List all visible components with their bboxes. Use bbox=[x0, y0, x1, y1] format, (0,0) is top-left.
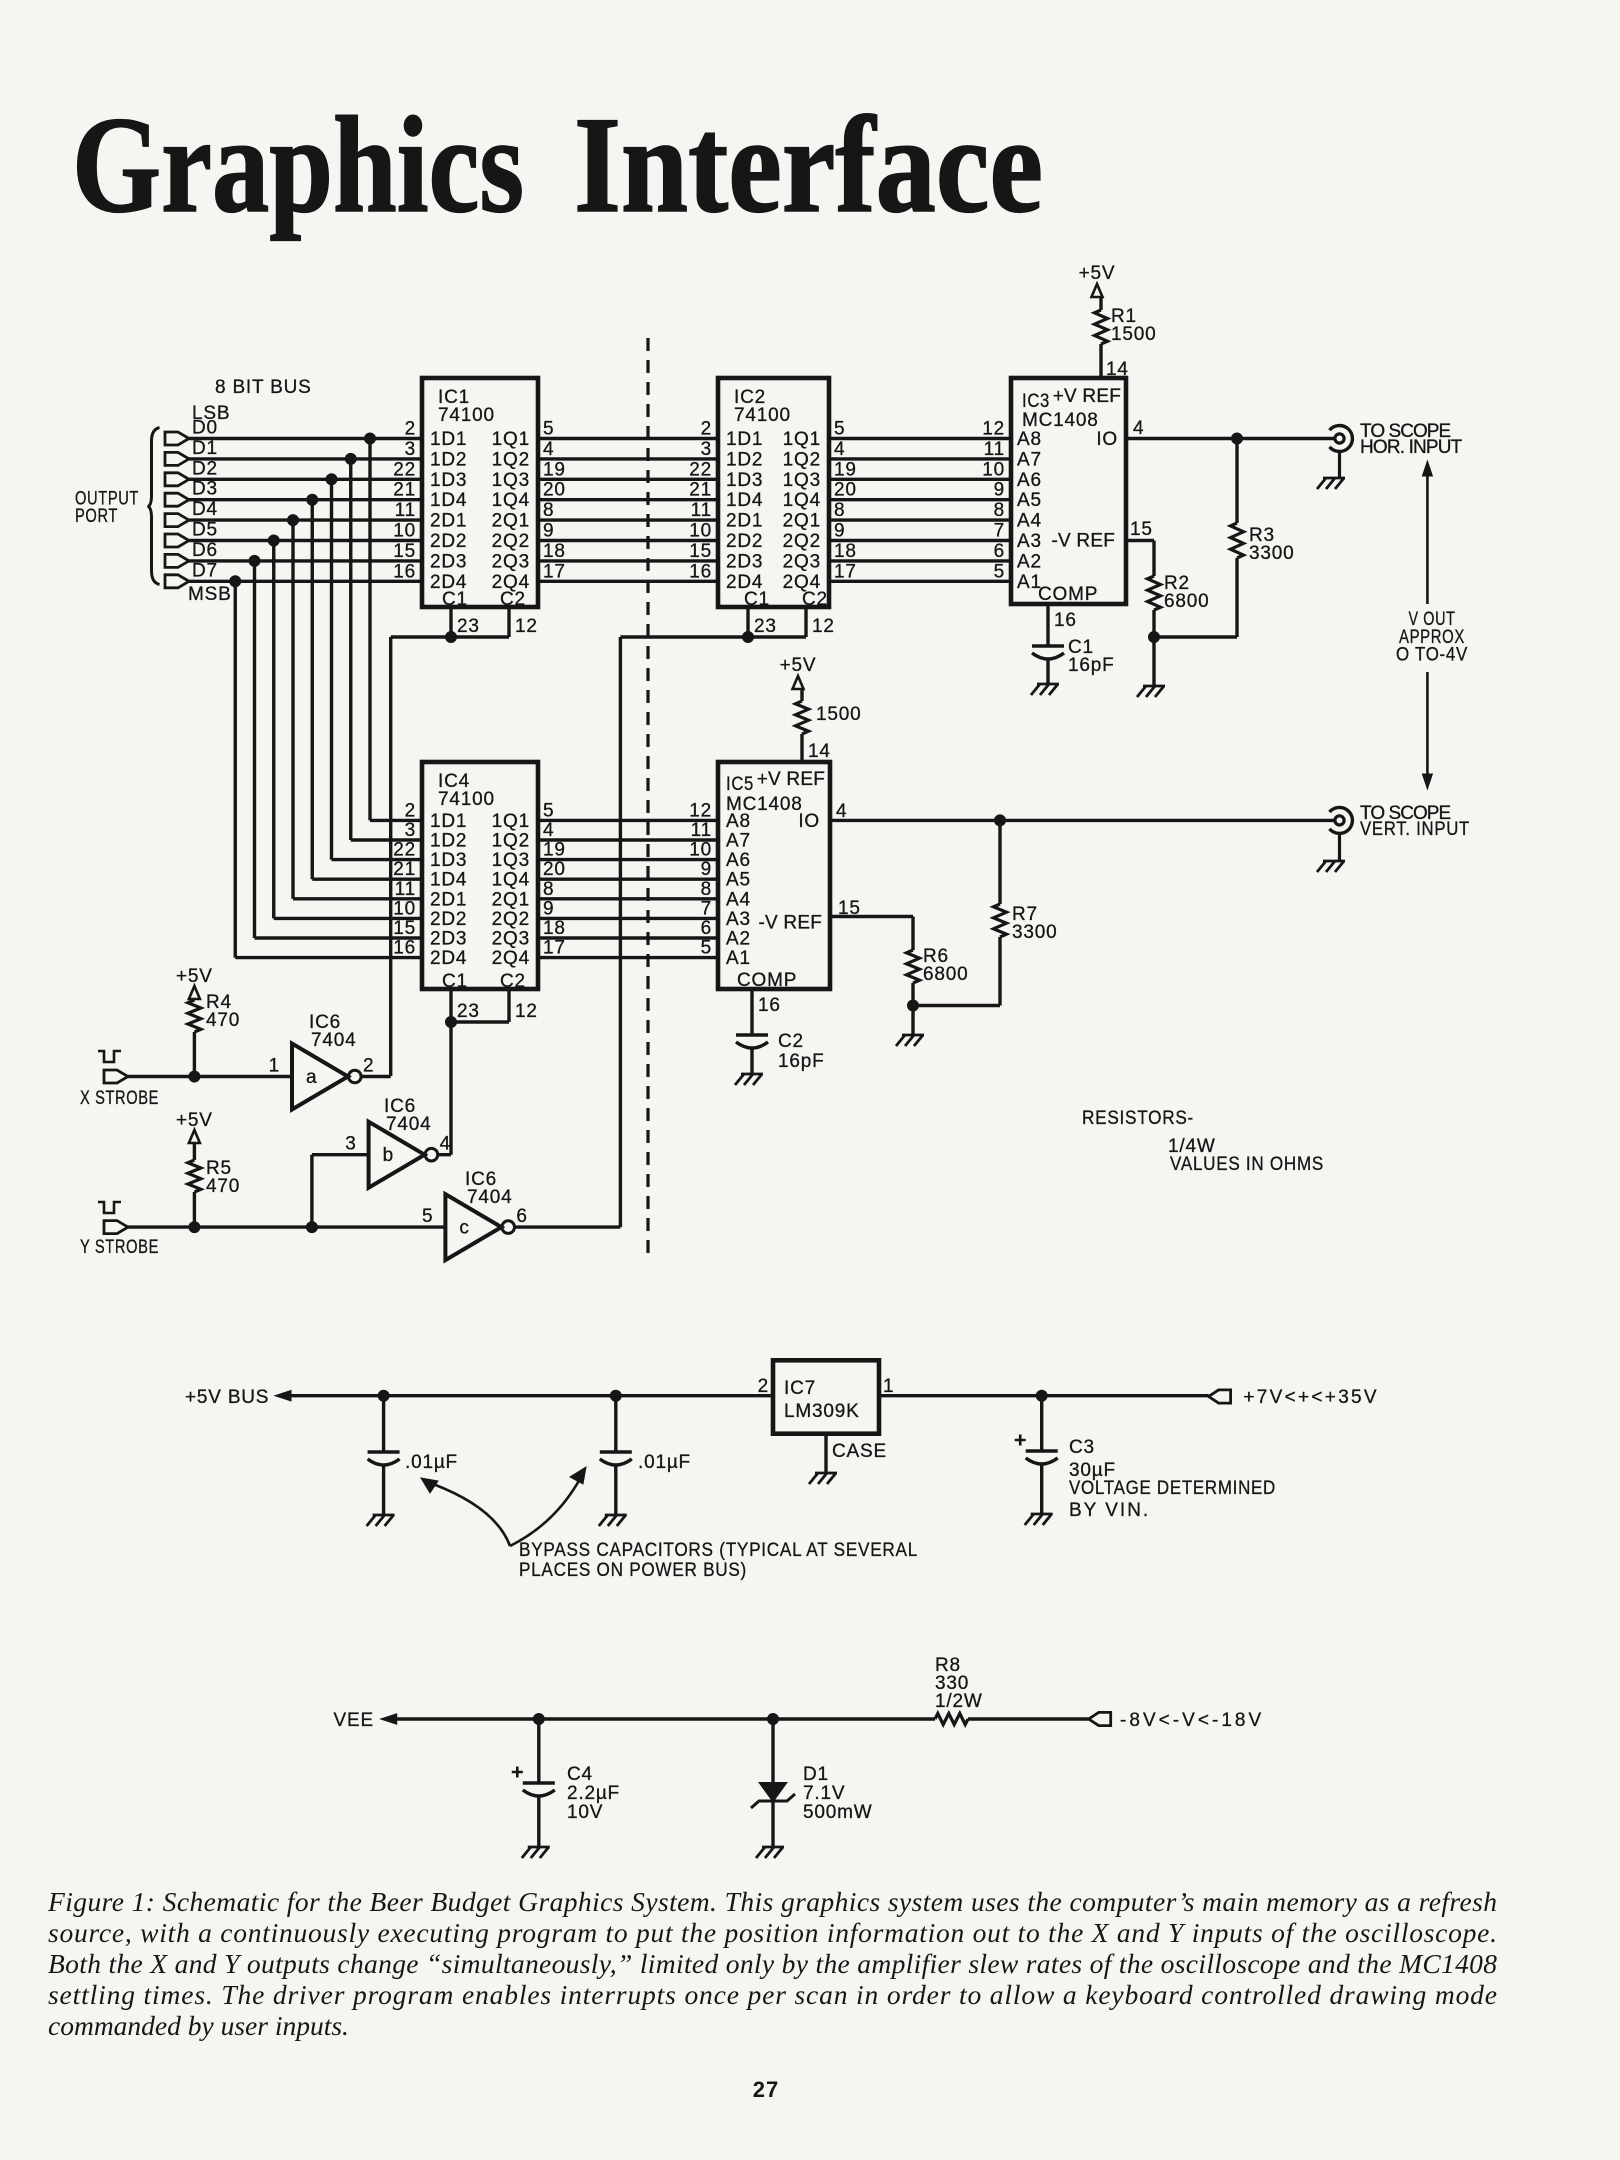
svg-text:A3: A3 bbox=[726, 909, 751, 930]
resistor R3 3300 bbox=[1231, 439, 1295, 638]
svg-text:2D4: 2D4 bbox=[430, 948, 467, 969]
svg-text:18: 18 bbox=[834, 541, 857, 562]
svg-text:1: 1 bbox=[883, 1376, 894, 1397]
svg-text:-V REF: -V REF bbox=[1052, 531, 1115, 552]
svg-text:IO: IO bbox=[798, 811, 820, 832]
svg-text:19: 19 bbox=[834, 459, 857, 480]
node C4 junction bbox=[533, 1714, 544, 1725]
svg-text:1D1: 1D1 bbox=[430, 811, 467, 832]
wire R2 junction to ground bbox=[1152, 637, 1155, 686]
figure caption bbox=[47, 1886, 1497, 2041]
svg-text:11: 11 bbox=[984, 439, 1005, 460]
svg-text:20: 20 bbox=[543, 480, 566, 501]
wire +5V to R1 bbox=[1099, 297, 1102, 310]
wire D3 vertical drop bbox=[311, 500, 314, 880]
svg-text:2Q1: 2Q1 bbox=[492, 889, 530, 910]
svg-text:D1: D1 bbox=[192, 438, 218, 459]
svg-text:1500: 1500 bbox=[816, 704, 861, 725]
wire 1Q3 IC4 to IC5 bbox=[538, 858, 718, 861]
svg-text:21: 21 bbox=[689, 480, 712, 501]
ground below R2 bbox=[1137, 686, 1165, 697]
wire IC3 -V REF pin 15 bbox=[1126, 519, 1154, 576]
svg-text:commanded by user inputs.: commanded by user inputs. bbox=[48, 2010, 349, 2041]
svg-text:1D3: 1D3 bbox=[430, 470, 467, 491]
svg-text:16: 16 bbox=[758, 995, 781, 1016]
wire D5 to IC4 bbox=[274, 917, 422, 920]
svg-text:10: 10 bbox=[393, 521, 416, 542]
ground below C4 bbox=[522, 1847, 550, 1858]
svg-text:4: 4 bbox=[543, 820, 554, 841]
svg-text:27: 27 bbox=[753, 2077, 779, 2102]
wire 2Q2 IC1 to IC2 bbox=[538, 539, 718, 542]
wire 1Q4 IC2 to IC3 bbox=[829, 498, 1011, 501]
svg-text:23: 23 bbox=[457, 1001, 480, 1022]
capacitor C4 2.2uF 10V bbox=[512, 1719, 620, 1847]
input connector D3 bbox=[165, 479, 218, 507]
svg-text:D6: D6 bbox=[192, 540, 218, 561]
wire IC4 clock tie bbox=[451, 1020, 509, 1023]
wire 1Q1 IC4 to IC5 bbox=[538, 819, 718, 822]
wire D3 to IC4 bbox=[312, 878, 422, 881]
wire 2Q3 IC1 to IC2 bbox=[538, 559, 718, 562]
svg-text:8 BIT BUS: 8 BIT BUS bbox=[215, 377, 312, 398]
wire D0 vertical drop bbox=[368, 439, 371, 821]
wire D5 to IC1 bbox=[189, 539, 422, 542]
node D2 junction bbox=[326, 474, 337, 485]
wire IC2 pin 12 bbox=[806, 607, 835, 637]
svg-text:15: 15 bbox=[393, 541, 416, 562]
x strobe pulse symbol bbox=[98, 1051, 121, 1062]
input connector D2 bbox=[165, 458, 218, 486]
bypass caps annotation arrows bbox=[421, 1467, 586, 1546]
wire +5V to R4 bbox=[193, 999, 196, 1000]
svg-text:7: 7 bbox=[994, 521, 1005, 542]
note resistors values bbox=[1082, 1108, 1324, 1175]
node y strobe junction R5 bbox=[189, 1222, 200, 1233]
node y strobe junction pin3 bbox=[306, 1222, 317, 1233]
svg-text:A3: A3 bbox=[1017, 531, 1042, 552]
ground below vert coax bbox=[1317, 861, 1345, 872]
svg-text:6800: 6800 bbox=[923, 964, 968, 985]
resistor R5 470 bbox=[188, 1158, 240, 1197]
svg-text:COMP: COMP bbox=[1038, 584, 1098, 605]
bypass capacitor .01uF A bbox=[368, 1396, 458, 1515]
inverter IC6c 7404 bbox=[422, 1169, 528, 1260]
ground below C2 bbox=[735, 1074, 763, 1085]
svg-text:1500: 1500 bbox=[1111, 324, 1156, 345]
node D6 junction bbox=[249, 555, 260, 566]
svg-text:1D1: 1D1 bbox=[726, 429, 763, 450]
svg-text:1D4: 1D4 bbox=[726, 490, 763, 511]
svg-text:b: b bbox=[383, 1145, 394, 1166]
svg-text:15: 15 bbox=[393, 918, 416, 939]
svg-text:source, with a continuously ex: source, with a continuously executing pr… bbox=[48, 1917, 1497, 1948]
wire IC1 clock tie bbox=[391, 635, 509, 638]
svg-text:74100: 74100 bbox=[438, 405, 495, 426]
inverter IC6b 7404 bbox=[345, 1096, 451, 1188]
wire D1 to IC4 bbox=[351, 838, 422, 841]
svg-text:C2: C2 bbox=[778, 1031, 804, 1052]
ground below C3 bbox=[1025, 1514, 1053, 1525]
IC IC7 LM309K bbox=[758, 1360, 895, 1433]
svg-text:4: 4 bbox=[543, 439, 554, 460]
svg-text:18: 18 bbox=[543, 541, 566, 562]
svg-text:2.2µF: 2.2µF bbox=[567, 1783, 620, 1804]
node D0 junction bbox=[365, 433, 376, 444]
wire IC4 pin 23 bbox=[451, 989, 480, 1022]
svg-text:17: 17 bbox=[834, 561, 857, 582]
wire D0 to IC1 bbox=[189, 437, 422, 440]
svg-text:1Q3: 1Q3 bbox=[783, 470, 821, 491]
ground below R6 bbox=[896, 1035, 924, 1046]
wire IC5 COMP pin 16 bbox=[752, 989, 781, 1035]
wire 1Q2 IC4 to IC5 bbox=[538, 838, 718, 841]
svg-text:BYPASS CAPACITORS (TYPICAL AT: BYPASS CAPACITORS (TYPICAL AT SEVERAL bbox=[519, 1540, 918, 1561]
wire y strobe to inverter c bbox=[128, 1225, 445, 1228]
resistor R1 1500 bbox=[1095, 306, 1157, 345]
wire inverter a output bbox=[362, 1075, 391, 1078]
IC IC2 74100 bbox=[689, 378, 856, 610]
svg-text:2: 2 bbox=[758, 1376, 769, 1397]
svg-text:8: 8 bbox=[834, 500, 845, 521]
svg-text:21: 21 bbox=[393, 859, 416, 880]
input connector Y STROBE bbox=[80, 1221, 159, 1258]
wire +5V bus right of IC7 bbox=[879, 1394, 1209, 1397]
svg-text:O TO-4V: O TO-4V bbox=[1396, 645, 1468, 666]
svg-text:6: 6 bbox=[516, 1206, 527, 1227]
svg-text:Both the X and Y outputs chang: Both the X and Y outputs change “simulta… bbox=[48, 1948, 1497, 1979]
svg-text:2D1: 2D1 bbox=[430, 511, 467, 532]
svg-text:A6: A6 bbox=[726, 850, 751, 871]
wire x strobe to inverter a bbox=[128, 1075, 292, 1078]
svg-text:1Q2: 1Q2 bbox=[492, 831, 530, 852]
wire 2Q3 IC2 to IC3 bbox=[829, 559, 1011, 562]
svg-text:74100: 74100 bbox=[734, 405, 791, 426]
svg-text:2D3: 2D3 bbox=[430, 929, 467, 950]
svg-text:14: 14 bbox=[808, 741, 831, 762]
label VEE bbox=[334, 1710, 374, 1731]
svg-text:-8V<-V<-18V: -8V<-V<-18V bbox=[1120, 1710, 1262, 1731]
wire D7 vertical drop bbox=[234, 581, 237, 957]
IC IC4 74100 bbox=[393, 762, 565, 992]
svg-text:7: 7 bbox=[701, 898, 712, 919]
svg-text:500mW: 500mW bbox=[803, 1802, 872, 1823]
wire D6 to IC1 bbox=[189, 559, 422, 562]
svg-text:1Q4: 1Q4 bbox=[492, 870, 530, 891]
svg-text:HOR. INPUT: HOR. INPUT bbox=[1360, 437, 1463, 458]
capacitor C2 16pF bbox=[736, 1031, 825, 1074]
svg-text:A5: A5 bbox=[1017, 490, 1042, 511]
svg-text:-V REF: -V REF bbox=[759, 913, 822, 934]
node C3 junction bbox=[1036, 1390, 1047, 1401]
svg-text:A7: A7 bbox=[1017, 449, 1042, 470]
svg-text:2Q4: 2Q4 bbox=[492, 948, 530, 969]
node IC1 clock junction bbox=[446, 632, 457, 643]
capacitor C1 16pF bbox=[1032, 637, 1115, 684]
svg-text:IC7: IC7 bbox=[784, 1378, 816, 1399]
wire D5 vertical drop bbox=[272, 541, 275, 919]
svg-text:VERT. INPUT: VERT. INPUT bbox=[1360, 819, 1470, 840]
svg-text:A8: A8 bbox=[726, 811, 751, 832]
node bypass cap B junction bbox=[610, 1390, 621, 1401]
svg-text:16pF: 16pF bbox=[1068, 655, 1115, 676]
y strobe pulse symbol bbox=[98, 1202, 121, 1213]
svg-text:23: 23 bbox=[457, 616, 480, 637]
wire R1 to IC3 pin 14 bbox=[1101, 344, 1129, 380]
wire D6 vertical drop bbox=[253, 561, 256, 938]
svg-text:A4: A4 bbox=[1017, 511, 1042, 532]
svg-text:C2: C2 bbox=[500, 589, 526, 610]
svg-text:2Q3: 2Q3 bbox=[783, 551, 821, 572]
svg-text:16: 16 bbox=[1054, 610, 1077, 631]
IC IC5 MC1408 bbox=[689, 762, 830, 991]
svg-text:10V: 10V bbox=[567, 1802, 603, 1823]
svg-text:15: 15 bbox=[1130, 519, 1153, 540]
wire IC5 -V REF pin 15 bbox=[830, 898, 913, 950]
svg-text:2D1: 2D1 bbox=[726, 511, 763, 532]
svg-text:+7V<+<+35V: +7V<+<+35V bbox=[1243, 1387, 1377, 1408]
svg-text:21: 21 bbox=[393, 480, 416, 501]
svg-text:C4: C4 bbox=[567, 1764, 593, 1785]
svg-text:IO: IO bbox=[1096, 429, 1118, 450]
svg-text:11: 11 bbox=[691, 820, 712, 841]
svg-text:Interface: Interface bbox=[574, 88, 1043, 241]
svg-text:2D2: 2D2 bbox=[430, 531, 467, 552]
svg-text:1D2: 1D2 bbox=[430, 831, 467, 852]
svg-text:2: 2 bbox=[405, 800, 416, 821]
svg-text:11: 11 bbox=[691, 500, 712, 521]
input connector D6 bbox=[165, 540, 218, 568]
svg-text:10: 10 bbox=[689, 840, 712, 861]
svg-text:2Q1: 2Q1 bbox=[492, 511, 530, 532]
resistor R8 330 1/2W bbox=[935, 1655, 983, 1725]
wire y strobe to inverter b input bbox=[312, 1155, 369, 1227]
svg-text:8: 8 bbox=[543, 879, 554, 900]
wire R4 to x strobe line bbox=[193, 1032, 196, 1076]
svg-text:16pF: 16pF bbox=[778, 1051, 825, 1072]
svg-text:4: 4 bbox=[1133, 418, 1144, 439]
note voltage determined by vin bbox=[1069, 1478, 1276, 1521]
svg-text:D7: D7 bbox=[192, 560, 218, 581]
svg-text:9: 9 bbox=[543, 898, 554, 919]
svg-text:12: 12 bbox=[689, 800, 712, 821]
svg-text:4: 4 bbox=[440, 1134, 451, 1155]
svg-text:Graphics: Graphics bbox=[72, 88, 524, 241]
svg-text:A8: A8 bbox=[1017, 429, 1042, 450]
bypass capacitor .01uF B bbox=[600, 1396, 691, 1515]
svg-text:PORT: PORT bbox=[75, 506, 118, 527]
svg-text:3300: 3300 bbox=[1249, 543, 1294, 564]
svg-text:MSB: MSB bbox=[188, 584, 232, 605]
svg-text:2: 2 bbox=[405, 419, 416, 440]
node D3 junction bbox=[307, 494, 318, 505]
svg-text:+V REF: +V REF bbox=[1053, 386, 1121, 407]
svg-text:2: 2 bbox=[363, 1056, 374, 1077]
wire IC2 clock tie bbox=[620, 635, 806, 638]
svg-text:D2: D2 bbox=[192, 458, 218, 479]
svg-text:16: 16 bbox=[393, 561, 416, 582]
svg-text:9: 9 bbox=[994, 480, 1005, 501]
svg-text:10: 10 bbox=[689, 521, 712, 542]
wire 2Q1 IC2 to IC3 bbox=[829, 518, 1011, 521]
+5V supply for R4 bbox=[176, 966, 213, 999]
input connector D0 bbox=[165, 418, 218, 446]
IC IC3 MC1408 bbox=[982, 378, 1126, 605]
wire D2 vertical drop bbox=[330, 479, 333, 859]
svg-text:VALUES IN OHMS: VALUES IN OHMS bbox=[1170, 1154, 1324, 1175]
svg-text:74100: 74100 bbox=[438, 789, 495, 810]
wire D4 to IC1 bbox=[189, 518, 422, 521]
wire IC4 pin 12 bbox=[509, 989, 538, 1022]
svg-text:2D2: 2D2 bbox=[726, 531, 763, 552]
svg-text:8: 8 bbox=[701, 879, 712, 900]
svg-text:5: 5 bbox=[701, 938, 712, 959]
label LSB bbox=[192, 403, 230, 424]
label +5V BUS bbox=[185, 1387, 269, 1408]
svg-text:5: 5 bbox=[543, 419, 554, 440]
wire 1Q4 IC4 to IC5 bbox=[538, 878, 718, 881]
svg-text:12: 12 bbox=[982, 419, 1005, 440]
svg-text:1: 1 bbox=[269, 1056, 280, 1077]
label MSB bbox=[188, 584, 232, 605]
inverter IC6a 7404 bbox=[269, 1012, 375, 1110]
+5V supply for R1 bbox=[1079, 263, 1116, 297]
svg-text:CASE: CASE bbox=[832, 1441, 887, 1462]
svg-text:9: 9 bbox=[701, 859, 712, 880]
note bypass capacitors bbox=[519, 1540, 918, 1581]
svg-text:VEE: VEE bbox=[334, 1710, 374, 1731]
wire IC3 COMP pin 16 bbox=[1048, 604, 1077, 646]
wire 1Q2 IC2 to IC3 bbox=[829, 457, 1011, 460]
ground below C1 bbox=[1031, 684, 1059, 695]
svg-text:12: 12 bbox=[515, 616, 538, 637]
node R7 top junction bbox=[995, 815, 1006, 826]
svg-text:C2: C2 bbox=[500, 971, 526, 992]
svg-text:1Q1: 1Q1 bbox=[492, 811, 530, 832]
wire D4 vertical drop bbox=[291, 520, 294, 899]
svg-text:1Q4: 1Q4 bbox=[783, 490, 821, 511]
wire D2 to IC1 bbox=[189, 478, 422, 481]
svg-text:1Q2: 1Q2 bbox=[783, 449, 821, 470]
svg-text:A5: A5 bbox=[726, 870, 751, 891]
svg-text:2Q3: 2Q3 bbox=[492, 551, 530, 572]
svg-text:11: 11 bbox=[395, 879, 416, 900]
svg-text:2D3: 2D3 bbox=[726, 551, 763, 572]
svg-text:settling times. The driver pro: settling times. The driver program enabl… bbox=[48, 1979, 1497, 2010]
svg-text:6: 6 bbox=[994, 541, 1005, 562]
wire IC1 pin 23 bbox=[451, 607, 480, 637]
wire IC2 clock to inverter c bbox=[619, 637, 622, 1227]
wire 1Q4 IC1 to IC2 bbox=[538, 498, 718, 501]
svg-text:1D3: 1D3 bbox=[430, 850, 467, 871]
wire D1 vertical drop bbox=[349, 459, 352, 840]
wire 2Q4 IC2 to IC3 bbox=[829, 580, 1011, 583]
svg-text:A7: A7 bbox=[726, 831, 751, 852]
svg-text:15: 15 bbox=[689, 541, 712, 562]
svg-text:12: 12 bbox=[515, 1001, 538, 1022]
svg-text:2Q1: 2Q1 bbox=[783, 511, 821, 532]
svg-text:7404: 7404 bbox=[386, 1114, 431, 1135]
svg-text:3: 3 bbox=[405, 820, 416, 841]
svg-text:23: 23 bbox=[754, 616, 777, 637]
wire +5V to R5 bbox=[193, 1143, 196, 1160]
svg-text:a: a bbox=[306, 1067, 317, 1088]
svg-text:14: 14 bbox=[1106, 359, 1129, 380]
wire 2Q4 IC4 to IC5 bbox=[538, 956, 718, 959]
svg-text:12: 12 bbox=[812, 616, 835, 637]
svg-text:D5: D5 bbox=[192, 520, 218, 541]
svg-text:2D3: 2D3 bbox=[430, 551, 467, 572]
svg-text:7404: 7404 bbox=[311, 1030, 356, 1051]
svg-text:A1: A1 bbox=[726, 948, 751, 969]
svg-text:D4: D4 bbox=[192, 499, 218, 520]
wire IC7 case pin bbox=[826, 1434, 887, 1473]
svg-text:1D4: 1D4 bbox=[430, 870, 467, 891]
IC IC1 74100 bbox=[393, 378, 565, 610]
svg-text:A6: A6 bbox=[1017, 470, 1042, 491]
svg-text:RESISTORS-: RESISTORS- bbox=[1082, 1108, 1194, 1129]
wire D7 to IC4 bbox=[235, 956, 422, 959]
input connector D4 bbox=[165, 499, 218, 527]
svg-text:1/2W: 1/2W bbox=[935, 1691, 983, 1712]
title Graphics Interface bbox=[72, 88, 1043, 241]
node IC4 clock junction bbox=[446, 1017, 457, 1028]
input connector D1 bbox=[165, 438, 218, 466]
input connector D5 bbox=[165, 520, 218, 548]
svg-text:10: 10 bbox=[982, 459, 1005, 480]
wire 2Q2 IC4 to IC5 bbox=[538, 917, 718, 920]
svg-text:1D4: 1D4 bbox=[430, 490, 467, 511]
svg-text:2Q2: 2Q2 bbox=[783, 531, 821, 552]
svg-text:470: 470 bbox=[206, 1176, 240, 1197]
resistor R6 6800 bbox=[907, 946, 969, 1006]
svg-text:1D3: 1D3 bbox=[726, 470, 763, 491]
wire 1Q3 IC1 to IC2 bbox=[538, 478, 718, 481]
wire IC1 pin 12 bbox=[509, 607, 538, 637]
svg-text:22: 22 bbox=[689, 459, 712, 480]
svg-text:3300: 3300 bbox=[1012, 922, 1057, 943]
svg-text:17: 17 bbox=[543, 561, 566, 582]
wire D1 to IC1 bbox=[189, 457, 422, 460]
wire 2Q2 IC2 to IC3 bbox=[829, 539, 1011, 542]
svg-text:VOLTAGE DETERMINED: VOLTAGE DETERMINED bbox=[1069, 1478, 1276, 1499]
svg-text:1D1: 1D1 bbox=[430, 429, 467, 450]
wire D4 to IC4 bbox=[293, 897, 422, 900]
resistor R4 470 bbox=[188, 992, 240, 1032]
wire R5 to y strobe line bbox=[193, 1192, 196, 1227]
wire R2 to R3 bottom bbox=[1154, 635, 1237, 638]
node R2 R3 junction bbox=[1149, 632, 1160, 643]
wire 2Q4 IC1 to IC2 bbox=[538, 580, 718, 583]
svg-text:1Q4: 1Q4 bbox=[492, 490, 530, 511]
wire IC3 IO output pin 4 bbox=[1126, 418, 1335, 439]
svg-text:6800: 6800 bbox=[1164, 591, 1209, 612]
ground below D1 bbox=[756, 1847, 784, 1858]
node D1 junction bbox=[768, 1714, 779, 1725]
svg-text:A2: A2 bbox=[1017, 551, 1042, 572]
svg-text:A2: A2 bbox=[726, 929, 751, 950]
svg-text:5: 5 bbox=[834, 419, 845, 440]
svg-text:3: 3 bbox=[701, 439, 712, 460]
svg-text:IC5: IC5 bbox=[726, 774, 754, 795]
svg-text:.01µF: .01µF bbox=[638, 1452, 691, 1473]
svg-text:7404: 7404 bbox=[467, 1187, 512, 1208]
svg-text:1Q1: 1Q1 bbox=[492, 429, 530, 450]
svg-text:20: 20 bbox=[543, 859, 566, 880]
ground below bypass cap A bbox=[367, 1515, 395, 1526]
svg-text:16: 16 bbox=[689, 561, 712, 582]
input connector X STROBE bbox=[80, 1070, 159, 1109]
